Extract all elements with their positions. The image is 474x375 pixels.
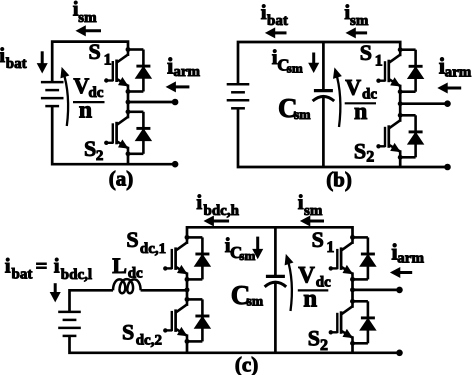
- freewheeling diode of S2 (c): [353, 301, 376, 343]
- freewheeling diode of S_dc,2: [187, 299, 210, 341]
- wire (b) left loop: battery top - top rail - S1 collector: [238, 42, 400, 84]
- capacitor C_sm (b): [313, 91, 335, 101]
- curved voltage arrow Vdc/n (b): [334, 69, 341, 127]
- label S_dc,1: [126, 227, 166, 257]
- wire (c) S2 emitter to bottom rail: [351, 343, 354, 353]
- label i_Csm (c): [225, 233, 256, 263]
- junction dots (b): [398, 47, 403, 160]
- wire (b) capacitor branch lower: [322, 98, 325, 168]
- label Vdc/n (b): [345, 74, 378, 125]
- wire (c) battery top to inductor: [70, 290, 114, 312]
- current arrow i_arm (b): [438, 83, 461, 92]
- current arrow i_bat (a): [38, 51, 47, 72]
- wire (b) capacitor branch upper: [322, 42, 325, 91]
- svg-text:sm: sm: [294, 107, 311, 122]
- label i_arm (c): [391, 240, 424, 267]
- wire (a) S1 emitter to S2 collector: [127, 92, 130, 112]
- svg-text:dc,2: dc,2: [136, 333, 162, 349]
- freewheeling diode of S2 (b): [400, 115, 423, 157]
- junction dots (c) dc bridge: [185, 235, 190, 344]
- wire (c) battery bottom - bottom rail - arm terminal: [70, 336, 400, 353]
- svg-text:i: i: [54, 254, 60, 278]
- svg-text:2: 2: [96, 148, 104, 164]
- terminal dots (a): [172, 99, 179, 168]
- svg-text:1: 1: [326, 239, 334, 256]
- wire (c) Sdc2 emitter to bottom rail: [186, 341, 189, 352]
- svg-text:S: S: [308, 326, 320, 351]
- current arrow i_Csm (b): [309, 53, 318, 73]
- label i_sm (b): [344, 0, 368, 29]
- wire (a) battery bottom - bottom rail - arm terminal: [52, 106, 175, 164]
- freewheeling diode of S2 (a): [128, 112, 151, 154]
- curved voltage arrow Vdc/n (c): [285, 255, 292, 311]
- freewheeling diode of S1 (b): [400, 50, 423, 92]
- label i_arm (a): [167, 53, 201, 80]
- battery B (a): [41, 82, 64, 106]
- wire (c) capacitor branch lower: [274, 283, 277, 353]
- battery B (b): [227, 84, 250, 108]
- label caption (a): [109, 167, 134, 191]
- svg-text:sm: sm: [239, 248, 255, 263]
- label i_bat (b): [261, 0, 288, 29]
- battery B (c): [58, 312, 81, 336]
- wire (a) midpoint stub to arm terminal: [128, 101, 175, 104]
- current arrow i_sm (a): [77, 26, 102, 35]
- svg-text:dc,1: dc,1: [140, 241, 166, 257]
- label i_bdc,h: [196, 190, 239, 219]
- svg-text:arm: arm: [397, 251, 424, 267]
- current arrow i_arm (a): [167, 82, 190, 91]
- wire (c) inductor to dc-bridge midpoint: [141, 289, 187, 292]
- svg-text:S: S: [84, 136, 96, 161]
- wire (a) left loop: battery top - top rail - S1 collector: [52, 42, 128, 83]
- curved voltage arrow Vdc/n (a): [61, 68, 69, 126]
- capacitor C_sm (c): [265, 276, 287, 286]
- junction dots (a): [126, 47, 131, 156]
- svg-text:i: i: [261, 0, 267, 24]
- svg-text:1: 1: [375, 52, 383, 69]
- svg-text:sm: sm: [287, 60, 303, 75]
- svg-text:(a): (a): [109, 167, 134, 191]
- transistor S2 (a) (IGBT): [104, 112, 128, 154]
- freewheeling diode of S1 (c): [353, 237, 376, 279]
- svg-text:V: V: [73, 73, 89, 98]
- svg-text:sm: sm: [304, 203, 323, 219]
- svg-text:i: i: [0, 43, 5, 67]
- current arrow i_bdc,h: [205, 216, 230, 225]
- svg-text:bat: bat: [267, 13, 288, 29]
- wire (b) S1 emitter to S2 collector: [399, 92, 402, 116]
- svg-text:sm: sm: [247, 294, 264, 309]
- transistor S1 (c) (IGBT): [329, 237, 353, 279]
- svg-text:V: V: [345, 74, 361, 99]
- label Vdc/n (c): [298, 263, 331, 313]
- label L_dc: [112, 253, 143, 282]
- label Vdc/n (a): [73, 73, 105, 123]
- transistor S2 (b) (IGBT): [376, 115, 400, 157]
- freewheeling diode of S_dc,1: [187, 237, 210, 279]
- wire (c) capacitor branch upper: [274, 227, 277, 276]
- label S2 (a): [84, 136, 103, 164]
- svg-text:S: S: [126, 227, 138, 252]
- wire (a) S2 emitter to bottom rail: [127, 154, 130, 164]
- label S_dc,2: [122, 320, 162, 349]
- svg-text:dc: dc: [316, 275, 331, 291]
- svg-text:bat: bat: [6, 56, 27, 72]
- transistor S1 (b) (IGBT): [376, 50, 400, 92]
- inductor L_dc: [113, 279, 141, 293]
- junction dots (c) ac bridge: [350, 235, 355, 346]
- label i_bat = i_bdc,l: [5, 254, 92, 283]
- terminal dots (c): [396, 287, 403, 357]
- current arrow i_bat (c): [51, 283, 60, 301]
- current arrow i_sm (b): [347, 28, 368, 37]
- svg-text:sm: sm: [350, 13, 369, 29]
- wire (c) top rail with collector drops: [187, 227, 353, 237]
- svg-text:i: i: [5, 254, 11, 278]
- svg-text:bdc,l: bdc,l: [61, 267, 92, 283]
- label i_bat (a): [0, 43, 27, 72]
- svg-text:S: S: [89, 39, 101, 64]
- svg-text:L: L: [112, 253, 127, 278]
- svg-text:(c): (c): [235, 352, 258, 375]
- label S2 (b): [354, 139, 374, 166]
- label S1 (c): [312, 227, 335, 256]
- wire (b) battery bottom - bottom rail - arm terminal: [238, 108, 448, 167]
- freewheeling diode of S1 (a): [128, 50, 151, 92]
- label S1 (a): [89, 39, 112, 68]
- current arrow i_Csm (c): [253, 237, 262, 259]
- label caption (b): [326, 167, 352, 191]
- transistor S_dc,1 (IGBT): [163, 237, 187, 279]
- svg-text:=: =: [36, 254, 48, 278]
- svg-text:i: i: [298, 190, 304, 214]
- svg-text:bat: bat: [12, 266, 33, 282]
- wire (b) midpoint stub to arm terminal: [400, 102, 447, 105]
- label i_sm (c): [298, 190, 323, 219]
- transistor S1 (a) (IGBT): [104, 50, 128, 92]
- svg-text:arm: arm: [173, 64, 200, 80]
- svg-text:S: S: [312, 227, 324, 252]
- svg-text:sm: sm: [78, 10, 97, 26]
- svg-text:V: V: [298, 263, 315, 288]
- svg-text:bdc,h: bdc,h: [204, 203, 240, 219]
- label C_sm (c): [231, 280, 264, 310]
- svg-text:1: 1: [104, 51, 112, 68]
- wire (b) S2 emitter to bottom rail: [399, 157, 402, 167]
- wire (c) Sdc1 emitter to Sdc2 collector: [186, 279, 189, 299]
- current arrow i_bat (b): [266, 28, 287, 37]
- label i_arm (b): [439, 53, 472, 80]
- current arrow i_sm (c): [301, 216, 324, 225]
- label i_sm (a): [73, 0, 97, 26]
- svg-text:n: n: [303, 285, 317, 312]
- wire (c) S1 emitter to S2 collector: [351, 279, 354, 301]
- svg-text:i: i: [196, 190, 202, 214]
- svg-text:arm: arm: [445, 64, 472, 80]
- svg-text:(b): (b): [326, 167, 352, 191]
- svg-text:2: 2: [366, 149, 374, 166]
- svg-text:n: n: [354, 99, 367, 125]
- wire (c) midpoint stub to arm terminal: [353, 289, 400, 292]
- label caption (c): [235, 352, 258, 375]
- svg-text:S: S: [354, 139, 366, 164]
- label C_sm (b): [278, 93, 311, 123]
- svg-text:S: S: [122, 320, 134, 345]
- svg-text:dc: dc: [128, 266, 143, 282]
- transistor S2 (c) (IGBT): [329, 301, 353, 343]
- label S1 (b): [360, 40, 383, 69]
- terminal dots (b): [444, 100, 451, 170]
- label S2 (c): [308, 326, 328, 354]
- svg-text:2: 2: [320, 337, 328, 354]
- current arrow i_arm (c): [391, 268, 412, 277]
- transistor S_dc,2 (IGBT): [163, 299, 187, 341]
- svg-text:n: n: [79, 97, 92, 123]
- svg-text:S: S: [360, 40, 372, 65]
- label i_Csm (b): [272, 45, 303, 75]
